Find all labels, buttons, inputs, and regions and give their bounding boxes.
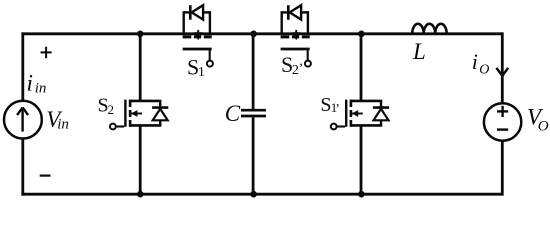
capacitor C plates bbox=[241, 110, 266, 116]
svg-text:C: C bbox=[225, 101, 241, 126]
arrow of output current bbox=[496, 68, 508, 76]
transistor S1 with body diode (top rail) bbox=[183, 5, 213, 66]
minus polarity mark (input) bbox=[40, 175, 51, 177]
plus polarity mark (input) bbox=[41, 47, 52, 59]
label S1' bbox=[320, 94, 339, 117]
label i_in bbox=[27, 70, 47, 96]
svg-text:in: in bbox=[57, 116, 69, 132]
current source Iin bbox=[4, 101, 42, 139]
svg-text:O: O bbox=[538, 118, 549, 134]
svg-text:1: 1 bbox=[198, 65, 205, 80]
wire bottom rail bbox=[21, 193, 502, 196]
label V_in bbox=[46, 107, 69, 132]
svg-text:’: ’ bbox=[299, 61, 304, 76]
junction dot bottom rail / C bottom bbox=[250, 191, 257, 198]
label S2' bbox=[281, 52, 303, 78]
transistor S1' with body diode bbox=[331, 32, 389, 195]
svg-text:2: 2 bbox=[108, 102, 115, 117]
svg-text:in: in bbox=[35, 81, 47, 97]
svg-text:i: i bbox=[27, 70, 33, 95]
wire right branch lower segment bbox=[501, 141, 504, 195]
label V_O bbox=[527, 105, 549, 135]
label S1 bbox=[187, 54, 205, 80]
voltage source VO bbox=[484, 103, 521, 140]
junction dot top rail / S1' drain bbox=[358, 31, 365, 38]
wire left branch lower segment bbox=[21, 138, 24, 195]
junction dot bottom rail / S1' source bbox=[358, 191, 365, 198]
wire left branch upper segment bbox=[21, 32, 24, 101]
svg-text:’: ’ bbox=[335, 102, 340, 117]
wire C branch lower segment bbox=[252, 117, 255, 195]
label i_O bbox=[472, 49, 490, 78]
svg-text:L: L bbox=[412, 39, 426, 64]
wire C branch upper segment bbox=[252, 32, 255, 109]
junction dot bottom rail / S2 source bbox=[137, 191, 144, 198]
transistor S2' with body diode (top rail) bbox=[281, 5, 311, 66]
wire top rail bbox=[21, 32, 502, 35]
label S2 bbox=[98, 95, 115, 118]
svg-text:O: O bbox=[479, 63, 489, 78]
wire right branch upper segment bbox=[501, 32, 504, 102]
junction dot top rail / S2 drain bbox=[137, 31, 144, 38]
transistor S2 with body diode bbox=[110, 32, 168, 195]
inductor L bbox=[412, 24, 447, 34]
svg-text:i: i bbox=[472, 49, 478, 74]
junction dot top rail / C top bbox=[250, 31, 257, 38]
